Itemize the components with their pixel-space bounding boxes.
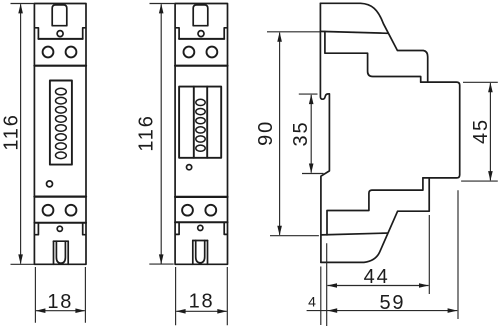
90: extension lines [267,32,320,236]
lower terminal bottom line [34,222,86,224]
lower right seal notch [83,223,85,235]
59 arrows [327,308,337,313]
44 arrows [327,283,337,288]
svg-text:90: 90 [255,120,277,146]
body outline [175,4,227,265]
116 middle: dimension line [160,4,162,263]
bottom cover seam [322,233,388,235]
18 middle arrows [176,309,186,314]
18 left arrows [36,308,46,313]
90 arrows [277,32,282,42]
svg-text:116: 116 [0,113,22,150]
lower left seal notch [176,222,179,234]
top DIN tab [52,5,67,26]
116 left: extension lines [11,4,35,265]
small screw circle bottom [198,225,203,230]
116 left arrows [18,4,23,14]
terminal circles bottom [43,205,54,216]
45: extension lines [461,82,498,181]
44: extension lines [327,215,430,326]
45 arrows [488,83,493,93]
svg-text:116: 116 [135,114,157,151]
display window [50,81,72,165]
counter digits 000000 [196,99,205,151]
widest front face (45 section) [421,82,460,178]
116 left: dimension line [20,4,22,263]
left seal notch [176,28,179,39]
bottom tab top line [54,240,69,242]
lower cover seam step [327,178,423,235]
svg-text:35: 35 [290,121,312,147]
18 left: extension lines [35,267,85,323]
116 middle: extension lines [149,4,175,265]
face LED circle [47,181,53,187]
18 left: dimension line [36,310,85,312]
bottom tab sides [193,241,208,265]
lower left seal notch [35,223,38,235]
44: dimension line [327,285,428,287]
svg-text:44: 44 [364,266,390,288]
bottom tab sides [54,241,69,264]
lower terminal bottom line [175,221,227,223]
35 arrows [309,94,314,104]
18 middle: extension lines [176,267,228,325]
small screw circle top [198,31,204,37]
top DIN tab [193,5,208,26]
terminal circles bottom [182,205,193,216]
back edge with rail hook [320,3,329,262]
counter digits 00000000 [56,88,67,158]
display inner columns [194,87,207,158]
bottom tab inner U [196,241,205,263]
terminal cover top line [179,38,224,40]
svg-text:59: 59 [379,292,405,314]
45: dimension line [489,83,491,180]
bottom tab inner U [56,241,65,263]
small screw circle top [57,31,63,37]
35: dimension line [310,95,312,173]
left seal notch [35,28,38,39]
terminal cover top line [38,38,82,40]
bottom cover face and chamfer [321,178,429,263]
90: dimension line [279,33,281,235]
svg-text:18: 18 [47,291,73,313]
body outline [34,4,86,265]
svg-text:45: 45 [470,118,492,144]
18 middle: dimension line [176,310,227,312]
59: extension lines [321,190,458,325]
svg-text:4: 4 [308,294,316,310]
svg-text:18: 18 [189,291,215,313]
lower right seal notch [224,222,226,234]
top cover seam [320,31,388,33]
right seal notch [83,28,85,39]
bottom tab top line [193,240,208,242]
116 middle arrows [159,4,164,14]
lower terminal top line [175,196,227,198]
terminal block bottom line [175,65,227,67]
top edge and upper-right profile [320,3,427,82]
face LED circle [187,165,192,170]
59: dimension line with left overshoot for 4 [307,310,458,312]
lower terminal top line [34,196,86,198]
right seal notch [224,28,226,39]
terminal block bottom line [34,65,86,67]
top cover inner edge [325,32,421,83]
terminal circles top [184,47,195,58]
35: extension lines [299,94,324,173]
display window [179,87,221,158]
small screw circle bottom [57,226,62,231]
terminal circles top [43,47,54,58]
